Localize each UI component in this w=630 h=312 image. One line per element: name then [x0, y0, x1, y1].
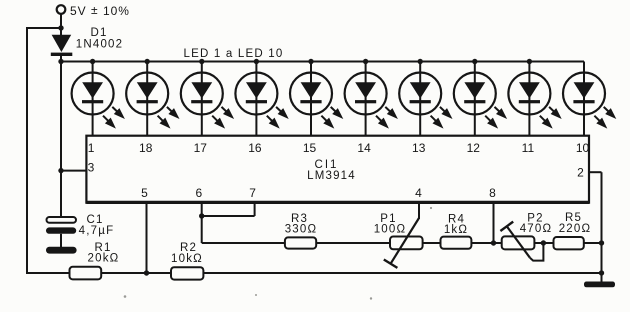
svg-text:LED 1 a LED 10: LED 1 a LED 10: [184, 48, 284, 60]
LED3: [181, 73, 234, 129]
wire pin 7 stub: [254, 203, 256, 216]
wire pin 2 to right rail: [589, 171, 602, 173]
node: bus junction at LED7: [418, 59, 423, 64]
svg-text:13: 13: [412, 141, 426, 155]
wire P2 wiper to output node: [530, 243, 544, 261]
node: bottom rail to right rail junction: [599, 270, 604, 275]
IC bottom edge (heavy scan line): [86, 201, 589, 204]
svg-text:6: 6: [195, 186, 202, 200]
wire LED1 column (bus to IC pin): [92, 62, 94, 137]
wire LED10 column (bus to IC pin): [583, 62, 585, 137]
svg-text:12: 12: [467, 141, 481, 155]
svg-text:LM3914: LM3914: [307, 170, 356, 182]
P1 wiper arm diagonal: [391, 218, 419, 264]
svg-text:220Ω: 220Ω: [559, 223, 592, 235]
svg-text:1N4002: 1N4002: [76, 39, 123, 51]
wire: right vertical rail down to ground: [601, 172, 603, 283]
LED2: [126, 73, 179, 129]
wire C1 lower lead: [60, 234, 62, 248]
LED5: [290, 73, 343, 129]
LED6: [345, 73, 398, 129]
svg-text:18: 18: [139, 141, 153, 155]
capacitor C1 positive plate (hollow): [47, 217, 77, 223]
diode D1 (1N4002) anode triangle: [52, 35, 72, 52]
resistor R5 (220): [554, 237, 584, 249]
wire LED7 column (bus to IC pin): [419, 62, 421, 137]
svg-text:14: 14: [357, 141, 371, 155]
wire: bottom rail: [27, 272, 602, 274]
node: junction of supply with left rail: [58, 25, 63, 30]
svg-text:17: 17: [194, 141, 208, 155]
svg-text:10kΩ: 10kΩ: [171, 253, 203, 265]
resistor R3 (330): [285, 237, 316, 248]
C1 lead end bar: [46, 247, 77, 254]
node: bus junction at LED5: [308, 59, 313, 64]
wire pin6 junction down: [201, 216, 203, 243]
svg-text:7: 7: [249, 186, 256, 200]
resistor R4 (1k): [441, 237, 472, 249]
wire: LED anode bus: [60, 61, 584, 63]
svg-text:1: 1: [88, 141, 95, 155]
potentiometer P1 body (100): [390, 237, 423, 250]
P2 wiper arm diagonal: [507, 226, 530, 257]
svg-text:15: 15: [303, 141, 317, 155]
wire LED9 column (bus to IC pin): [528, 62, 530, 137]
wire LED8 column (bus to IC pin): [474, 62, 476, 137]
svg-text:5: 5: [141, 186, 148, 200]
LED1: [72, 73, 125, 129]
ground: [584, 282, 615, 288]
wire: left vertical rail: [26, 27, 28, 274]
svg-text:4: 4: [415, 186, 422, 200]
svg-text:100Ω: 100Ω: [374, 224, 407, 236]
wire from terminal down to diode D1: [60, 14, 62, 35]
wire pin 8 down to chain: [493, 203, 495, 243]
LED10: [563, 73, 616, 129]
wire pin 5 down to bottom rail: [146, 203, 148, 273]
wire from D1 cathode to LED anode bus: [60, 56, 62, 63]
svg-text:10: 10: [576, 141, 590, 155]
svg-text:16: 16: [248, 141, 262, 155]
resistor R1 (20k): [70, 267, 102, 280]
svg-text:1kΩ: 1kΩ: [444, 224, 468, 236]
node: pin 5 junction on bottom rail: [144, 270, 149, 275]
node: pin 3 junction: [58, 168, 63, 173]
wire pin 4 down to P1 wiper: [418, 203, 420, 219]
wire jumper pin 7 to pin 6: [202, 215, 255, 217]
node: bus junction at LED6: [363, 59, 368, 64]
terminal 5V supply input: [57, 5, 66, 14]
op-amp / IC CI1 LM3914 body: [86, 136, 589, 203]
node: P2/R5 junction: [541, 240, 546, 245]
svg-text:11: 11: [522, 141, 535, 155]
node: bus junction at LED3: [199, 59, 204, 64]
wire from junction to left rail: [27, 27, 61, 29]
node: bus junction at LED1: [90, 59, 95, 64]
LED8: [454, 73, 507, 129]
node: R5 output to right rail: [599, 240, 604, 245]
svg-text:2: 2: [577, 166, 584, 180]
node: D1 cathode junction: [58, 59, 63, 64]
wire across to R3: [202, 242, 286, 244]
svg-text:D1: D1: [90, 27, 107, 39]
svg-text:8: 8: [489, 186, 496, 200]
wire LED3 column (bus to IC pin): [201, 62, 203, 137]
node: bus junction at LED9: [527, 59, 532, 64]
LED4: [235, 73, 288, 129]
wire pin 6 stub: [201, 203, 203, 216]
node: pin 8 junction: [491, 240, 496, 245]
P1 wiper end crossbar: [384, 260, 398, 268]
node: bus junction at LED8: [472, 59, 477, 64]
potentiometer P2 body (470): [502, 236, 535, 249]
wire LED2 column (bus to IC pin): [146, 62, 148, 137]
svg-text:5V ± 10%: 5V ± 10%: [70, 3, 130, 18]
capacitor C1 negative plate (filled): [46, 227, 76, 233]
svg-text:3: 3: [88, 161, 95, 175]
LED7: [399, 73, 452, 129]
wire LED4 column (bus to IC pin): [255, 62, 257, 137]
svg-text:4,7µF: 4,7µF: [79, 225, 115, 237]
diode D1 cathode bar: [51, 53, 73, 56]
wire LED6 column (bus to IC pin): [365, 62, 367, 137]
node: bus junction at LED2: [145, 59, 150, 64]
(scan speckles): [124, 207, 432, 300]
LED9: [508, 73, 561, 129]
wire LED5 column (bus to IC pin): [310, 62, 312, 137]
wire from D1 junction down left side to pin 3 node: [60, 62, 62, 173]
wire: divider chain R3..R5: [285, 242, 602, 244]
wire pin3 node down to C1: [60, 171, 62, 218]
svg-text:20kΩ: 20kΩ: [88, 253, 120, 265]
resistor R2 (10k): [171, 267, 203, 279]
svg-text:470Ω: 470Ω: [520, 223, 553, 235]
node: pin 6/7 junction: [199, 213, 204, 218]
svg-text:330Ω: 330Ω: [285, 224, 318, 236]
P2 wiper end crossbar: [500, 222, 513, 231]
wire pin 3 to left column: [61, 170, 86, 172]
node: bus junction at LED4: [254, 59, 259, 64]
